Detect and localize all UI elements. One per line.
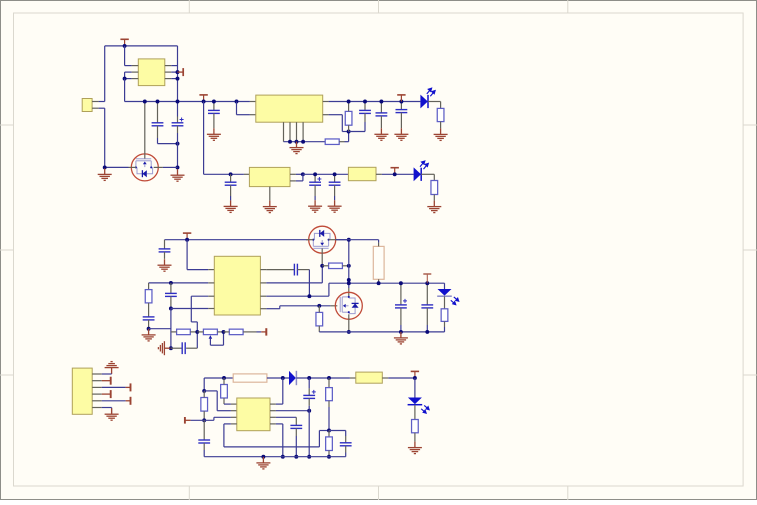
wire J1.2 down to Q1 row xyxy=(104,108,106,167)
junction R11 bottom xyxy=(377,281,381,285)
pin R8 left xyxy=(224,331,230,333)
pin RP1 left xyxy=(197,331,203,333)
capacitor C15 electrolytic xyxy=(400,283,402,305)
power bar row2 xyxy=(391,168,399,175)
pin J2.3 xyxy=(92,386,102,388)
wire R16 to node xyxy=(328,401,330,407)
capacitor C18 xyxy=(290,425,302,428)
pin U4 R1 xyxy=(260,269,266,271)
wire D4 cathode rail xyxy=(296,377,350,379)
capacitor C14 horizontal xyxy=(294,264,297,276)
wire R18 to ground xyxy=(414,433,416,442)
junction left column bottom xyxy=(169,346,173,350)
LED D3 xyxy=(444,283,446,289)
junction pot row left xyxy=(195,330,199,334)
capacitor C12 xyxy=(170,283,172,294)
pin U1.4 right xyxy=(165,78,172,80)
wire D1 cathode xyxy=(428,101,441,103)
junction C11 bottom xyxy=(147,327,151,331)
ground at C11 xyxy=(142,329,156,341)
transistor Q2 xyxy=(309,226,336,253)
wire C1 bottom link xyxy=(158,143,178,145)
pin Q1 drain from rail xyxy=(144,102,146,159)
resistor R11 current sense xyxy=(373,246,384,279)
power bar rail mid xyxy=(199,95,207,102)
wire R1 to C14 xyxy=(266,269,294,271)
junction Q3 source xyxy=(347,330,351,334)
junction C6 top xyxy=(399,100,403,104)
port bar feedback xyxy=(185,417,191,424)
junction feedback node xyxy=(347,130,351,134)
wire C11 bottom link xyxy=(149,328,171,330)
pin J2.1 xyxy=(92,373,102,375)
wire port to U6 L3 xyxy=(191,419,214,421)
pin U5 right xyxy=(382,377,388,379)
pin U1.2 left xyxy=(132,71,139,73)
ground at U3 xyxy=(263,201,277,213)
pin U6 R4 xyxy=(270,423,276,425)
pin Q3 source xyxy=(348,314,350,332)
wire D3 cathode xyxy=(444,296,446,308)
junction C5 top xyxy=(379,100,383,104)
IC U2 xyxy=(256,95,323,122)
wire to U4 vin xyxy=(186,240,188,270)
junction C1 top xyxy=(156,100,160,104)
resistor R8 xyxy=(229,329,243,335)
port bar J2.3 xyxy=(126,383,131,391)
wire R5 to LED xyxy=(376,173,382,175)
junction left col xyxy=(202,389,206,393)
resistor R9 xyxy=(316,312,323,326)
resistor R3 xyxy=(437,108,444,121)
pin U6 L3 xyxy=(231,416,237,418)
junction Q2 bottom xyxy=(320,264,324,268)
pin J1.2 xyxy=(92,107,99,109)
pin U4 R2 xyxy=(260,282,266,284)
IC U4 controller xyxy=(214,256,260,315)
capacitor C9 xyxy=(334,174,336,182)
wire bottom ground row xyxy=(204,456,346,458)
ground at U2 xyxy=(290,142,304,154)
power bar VCC1 xyxy=(120,39,128,46)
junction gnd bus c xyxy=(301,140,305,144)
junction C1-C2 bottom xyxy=(176,142,180,146)
ground mid section xyxy=(394,332,408,344)
junction mid power xyxy=(185,238,189,242)
ground at C8 xyxy=(308,200,322,212)
capacitor C8 electrolytic xyxy=(314,174,316,182)
IC U3 LDO xyxy=(244,173,250,175)
ground at R3 xyxy=(434,128,448,140)
ground at R18 xyxy=(408,442,422,454)
pin J2.4 xyxy=(92,393,102,395)
junction C3 top xyxy=(212,100,216,104)
pin J2.5 xyxy=(92,400,102,402)
junction at U1 pin3 xyxy=(123,77,127,81)
junction ground row xyxy=(261,455,265,459)
wire C14 to drop xyxy=(298,269,310,271)
wire RP1 wiper loop xyxy=(209,339,211,346)
port bar J2.5 xyxy=(126,397,131,405)
pin U2 input xyxy=(250,101,256,103)
wire U4 L4 row xyxy=(171,308,208,310)
wire U6 L4 loop xyxy=(224,423,231,425)
capacitor C19 xyxy=(303,395,315,398)
resistor R6 xyxy=(145,290,152,303)
pin U6 R3 xyxy=(270,416,276,418)
pin R11 bottom xyxy=(378,279,380,283)
junction L2 row xyxy=(169,281,173,285)
junction U2 input xyxy=(235,100,239,104)
wire left column bottom xyxy=(203,378,205,391)
ground left rotated xyxy=(158,341,170,355)
wire drop to row2 xyxy=(203,102,205,175)
wire Q1 left to ground node xyxy=(105,166,129,168)
resistor R7 xyxy=(177,329,191,335)
pin U3 sense xyxy=(290,180,296,182)
wire J2.6 down xyxy=(111,408,113,414)
junction R2-column xyxy=(307,409,311,413)
pin Q3 gate stub xyxy=(330,305,337,307)
pin U4 vin xyxy=(208,269,214,271)
resistor R4 xyxy=(431,181,438,195)
pin U2 gnd1 xyxy=(283,122,285,142)
wire mid output row xyxy=(329,282,445,284)
junction row2 power xyxy=(393,172,397,176)
pin Q2 right xyxy=(329,239,339,241)
wire R14 to U6 L1 xyxy=(223,398,225,404)
wire U6 R4 down xyxy=(276,423,283,425)
junction R14 top xyxy=(222,376,226,380)
junction pot row right xyxy=(222,330,226,334)
pin U6 L4 xyxy=(231,423,237,425)
wire R1 to feedback node xyxy=(339,141,344,143)
wire R17 link xyxy=(328,431,330,437)
resistor R5 network xyxy=(348,167,376,180)
junction RC node xyxy=(327,429,331,433)
wire R3 step up xyxy=(328,283,330,296)
capacitor C17 xyxy=(198,440,210,443)
junction C9 top xyxy=(333,172,337,176)
wire U6 R2 to diode column xyxy=(276,410,309,412)
junction C12 bottom xyxy=(169,307,173,311)
wire bottom top rail xyxy=(204,377,233,379)
wire U6 R1 up to rail xyxy=(276,403,283,405)
pin R14 top xyxy=(223,378,225,385)
junction C15 top xyxy=(399,281,403,285)
transistor Q3 xyxy=(335,292,362,319)
wire row2 output xyxy=(303,173,349,175)
capacitor C11 xyxy=(143,317,155,320)
junction D4 cathode xyxy=(307,376,311,380)
ground at J2.6 xyxy=(105,408,119,420)
wire left drop to connector xyxy=(104,46,106,102)
pin U6 L1 xyxy=(231,403,237,405)
power bar bottom out xyxy=(411,371,419,378)
junction gnd bus a xyxy=(288,140,292,144)
wire U2 enable loop xyxy=(236,102,238,115)
junction C2 ground node xyxy=(176,165,180,169)
pin U2 feedback xyxy=(323,114,329,116)
resistor R12 xyxy=(441,309,448,322)
wire D2 cathode xyxy=(421,173,434,175)
pin U4 R4 xyxy=(260,308,266,310)
junction rail mid power xyxy=(202,100,206,104)
diode D4 xyxy=(289,371,296,385)
ground at Q1 left xyxy=(98,168,112,180)
pin R2 bottom xyxy=(348,125,350,131)
pin R8 right xyxy=(243,331,256,333)
junction C18 bottom xyxy=(294,455,298,459)
LED D1 xyxy=(420,88,435,108)
pin U1.3 left xyxy=(132,78,139,80)
junction R2 top xyxy=(347,100,351,104)
ground at C3 xyxy=(207,128,221,140)
pin Q2 bottom xyxy=(321,248,323,265)
power bar mid xyxy=(183,233,191,240)
junction column bottom xyxy=(307,455,311,459)
wire output rail xyxy=(329,101,421,103)
ground at C5 xyxy=(374,128,388,140)
pin R7 left xyxy=(171,331,177,333)
junction C8 top xyxy=(313,172,317,176)
IC U1 xyxy=(138,59,165,86)
pin U2 gnd3 xyxy=(296,122,298,142)
wire left column down xyxy=(170,309,172,349)
pin R9 bottom xyxy=(318,326,320,332)
wire R11 top xyxy=(336,239,379,241)
wire D5 cathode xyxy=(414,405,416,420)
pin J2.6 xyxy=(92,407,102,409)
pin RP1 right xyxy=(217,331,223,333)
wire VCC top rail xyxy=(105,45,178,47)
pin U6 R2 xyxy=(270,410,276,412)
wire mid bottom row xyxy=(319,331,444,333)
ground at C10 xyxy=(158,259,172,271)
wire R13 to D4 xyxy=(267,377,289,379)
resistor R14 xyxy=(221,385,228,399)
resistor R17 xyxy=(326,437,333,451)
wire R3 to ground xyxy=(440,122,442,129)
capacitor C7 xyxy=(230,174,232,182)
wire R4 to ground xyxy=(433,195,435,201)
junction at U1 pin4 xyxy=(176,77,180,81)
ground at R4 xyxy=(427,201,441,213)
wire R4 to gate xyxy=(266,308,280,310)
pin U4 L3 xyxy=(208,295,214,297)
node junction on VCC rail xyxy=(123,44,127,48)
pin J1.1 xyxy=(92,101,99,103)
junction U3 out xyxy=(301,172,305,176)
ground at C2 xyxy=(171,169,185,181)
junction Q1 left ground node xyxy=(103,165,107,169)
pin U1.6 right xyxy=(165,65,172,67)
capacitor C2 electrolytic xyxy=(177,117,179,123)
pin U3 gnd xyxy=(269,187,271,201)
LED D2 xyxy=(414,161,429,181)
capacitor C13 horizontal xyxy=(171,347,182,349)
resistor R1 xyxy=(325,139,339,145)
port bar adjust xyxy=(261,328,266,335)
junction C7 top xyxy=(229,172,233,176)
resistor R13 sense xyxy=(233,374,267,382)
ground at C7 xyxy=(224,200,238,212)
junction rail-U1 crossing xyxy=(176,100,180,104)
wire right drop through U1 pins xyxy=(177,46,179,117)
pin R7 right xyxy=(190,331,197,333)
resistor R16 xyxy=(326,388,333,401)
junction D4 anode drop xyxy=(281,376,285,380)
wire R3 row xyxy=(266,295,329,297)
pin R15 top xyxy=(203,391,205,398)
junction R17 bottom xyxy=(327,455,331,459)
junction boost out xyxy=(327,376,331,380)
wire feedback drop xyxy=(341,115,343,132)
wire R16 column top xyxy=(328,378,330,388)
junction drain top xyxy=(347,238,351,242)
wire row2 feed xyxy=(204,173,244,175)
junction drain mid xyxy=(347,281,351,285)
junction R3-C14 xyxy=(307,294,311,298)
resistor R10 xyxy=(329,263,343,269)
potentiometer RP1 xyxy=(203,329,217,335)
pin Q3 drain stub xyxy=(348,288,350,298)
pin U2 gnd4 xyxy=(302,122,304,142)
wire U4 L2 row xyxy=(149,282,209,284)
pin R2 top xyxy=(348,102,350,112)
wire feedback to C4 xyxy=(349,131,365,133)
pin U4 R3 xyxy=(260,295,266,297)
wire R6 to C11 xyxy=(148,303,150,317)
resistor R18 xyxy=(412,420,419,433)
connector J1 xyxy=(82,99,92,112)
wire node to C20 xyxy=(329,430,346,432)
power bar mid out xyxy=(423,274,431,283)
wire U6 R3 to C18 xyxy=(276,416,296,418)
pin U1.5 right xyxy=(165,71,172,73)
inductor-filter U5 xyxy=(350,377,356,379)
pin U4 L4 xyxy=(208,308,214,310)
IC U6 boost controller xyxy=(237,398,270,431)
ground at C6 xyxy=(394,128,408,140)
wire R2 to Q2 gate node xyxy=(266,282,322,284)
pin U3 out xyxy=(290,173,296,175)
capacitor C16 xyxy=(426,283,428,305)
resistor R15 xyxy=(201,398,208,412)
connector J2 xyxy=(72,368,92,414)
junction at U1 pin5 xyxy=(176,70,180,74)
wire U1 pin3 down to rail xyxy=(124,79,126,102)
junction gnd bus b xyxy=(295,140,299,144)
wire U4 L3 route xyxy=(191,295,208,297)
capacitor C4 xyxy=(364,102,366,111)
ground flipped at J2.1 xyxy=(105,362,119,374)
power bar 3V3 xyxy=(397,95,405,102)
pin R17 bottom xyxy=(328,451,330,457)
port bar J2.2 xyxy=(102,377,111,385)
junction Q1 drain on rail xyxy=(143,100,147,104)
pin U6 R1 xyxy=(270,403,276,405)
pin R15 bottom xyxy=(203,411,205,420)
capacitor C20 xyxy=(340,443,352,446)
junction C16 bottom xyxy=(425,330,429,334)
capacitor C5 xyxy=(380,102,382,113)
wire mid top rail xyxy=(165,239,309,241)
pin R10 left xyxy=(322,265,328,267)
junction D5 top xyxy=(413,376,417,380)
wire jog to U6 L2 xyxy=(204,390,217,392)
capacitor C6 xyxy=(400,102,402,110)
resistor R2 xyxy=(345,111,352,125)
wire main rail VIN xyxy=(125,101,250,103)
pin U2 gnd2 xyxy=(289,122,291,142)
capacitor C3 xyxy=(213,102,215,111)
ground bottom section xyxy=(256,457,270,469)
junction R4 bottom xyxy=(281,455,285,459)
pin J2.2 xyxy=(92,380,102,382)
junction R10 right xyxy=(347,264,351,268)
junction C4 top xyxy=(363,100,367,104)
transistor Q1 xyxy=(131,154,158,181)
pin R10 right xyxy=(342,265,348,267)
capacitor C10 xyxy=(164,240,166,249)
LED D5 xyxy=(414,378,416,398)
ground at C9 xyxy=(328,200,342,212)
wire J2.1 up xyxy=(111,373,113,376)
junction feedback port xyxy=(202,418,206,422)
wire drain column xyxy=(348,240,350,288)
capacitor C1 xyxy=(157,102,159,123)
junction gate-R9 xyxy=(317,304,321,308)
wire U2 ground bus xyxy=(284,141,326,143)
power bar at U1 pin5 xyxy=(178,68,184,76)
pin U2 out xyxy=(323,101,329,103)
pin R9 top xyxy=(318,306,320,313)
wire R12 to bottom row xyxy=(444,321,446,327)
pin U1.1 left xyxy=(132,65,139,67)
junction C16 top xyxy=(425,281,429,285)
pin Q2 left xyxy=(306,239,313,241)
wire diode column xyxy=(308,378,310,388)
pin U2 enable xyxy=(250,114,256,116)
junction C15 bottom xyxy=(399,330,403,334)
port bar J2.4 xyxy=(102,390,111,398)
wire L2 to R6 xyxy=(148,283,150,290)
pin U4 L2 xyxy=(208,282,214,284)
pin U6 L2 xyxy=(231,410,237,412)
pin Q1 right xyxy=(154,166,163,168)
junction drain upper xyxy=(347,278,351,282)
wire R15 to C17 xyxy=(203,420,205,440)
